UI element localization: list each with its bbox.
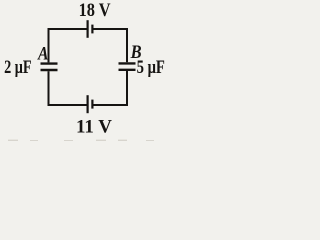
capacitor C1 bottom plate: [41, 69, 58, 71]
svg-text:A: A: [37, 44, 48, 64]
battery V1 18V short plate: [91, 25, 93, 34]
wire bottom-right segment: [93, 104, 127, 106]
battery V1 18V long plate: [86, 20, 88, 38]
svg-text:5 μF: 5 μF: [137, 58, 165, 78]
wire top-left segment: [49, 28, 87, 30]
capacitor C1 top plate: [41, 62, 58, 64]
wire top-right segment: [93, 28, 127, 30]
faint cropped print at bottom edge: [8, 140, 154, 141]
svg-text:2 μF: 2 μF: [4, 58, 32, 78]
battery V2 11V long plate: [86, 95, 88, 113]
capacitor C2 bottom plate: [119, 69, 136, 71]
battery V2 11V short plate: [91, 100, 93, 109]
wire left upper segment: [48, 28, 50, 62]
svg-text:18 V: 18 V: [79, 1, 112, 21]
wire left lower segment: [48, 71, 50, 106]
scan background: [0, 0, 180, 141]
wire right lower segment: [126, 71, 128, 106]
wire bottom-left segment: [49, 104, 87, 106]
capacitor C2 top plate: [119, 62, 136, 64]
svg-text:11 V: 11 V: [76, 117, 113, 137]
wire right upper segment: [126, 28, 128, 62]
